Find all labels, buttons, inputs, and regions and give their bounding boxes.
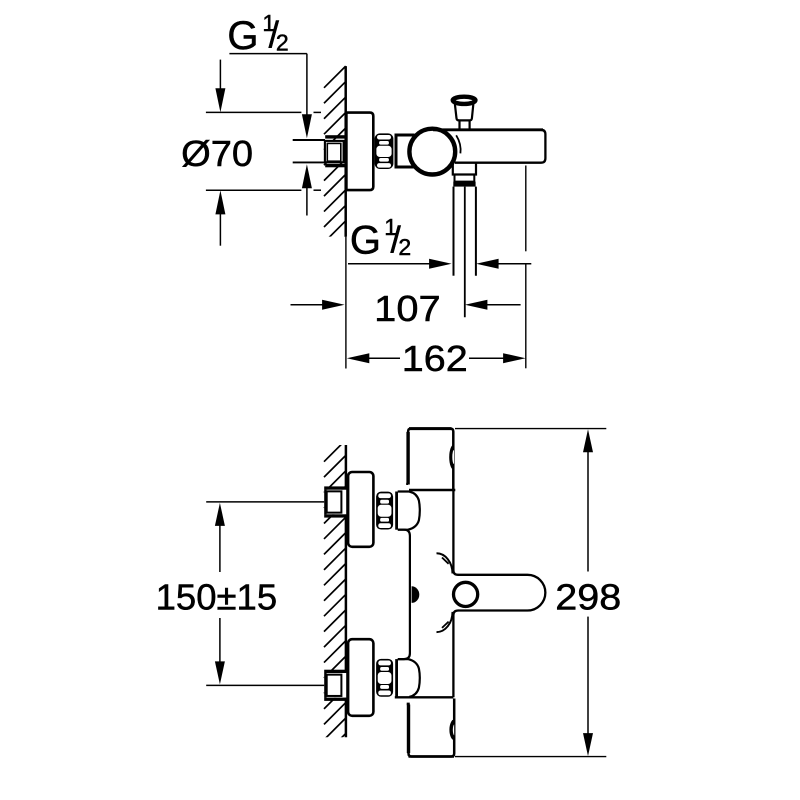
svg-text:2: 2 <box>398 234 411 260</box>
svg-text:G: G <box>350 218 381 262</box>
svg-text:107: 107 <box>374 288 441 329</box>
svg-text:G: G <box>227 14 258 58</box>
svg-text:Ø70: Ø70 <box>181 133 253 174</box>
svg-text:2: 2 <box>276 29 289 55</box>
svg-text:162: 162 <box>402 338 468 379</box>
svg-text:298: 298 <box>555 577 621 618</box>
svg-text:150±15: 150±15 <box>156 576 278 617</box>
